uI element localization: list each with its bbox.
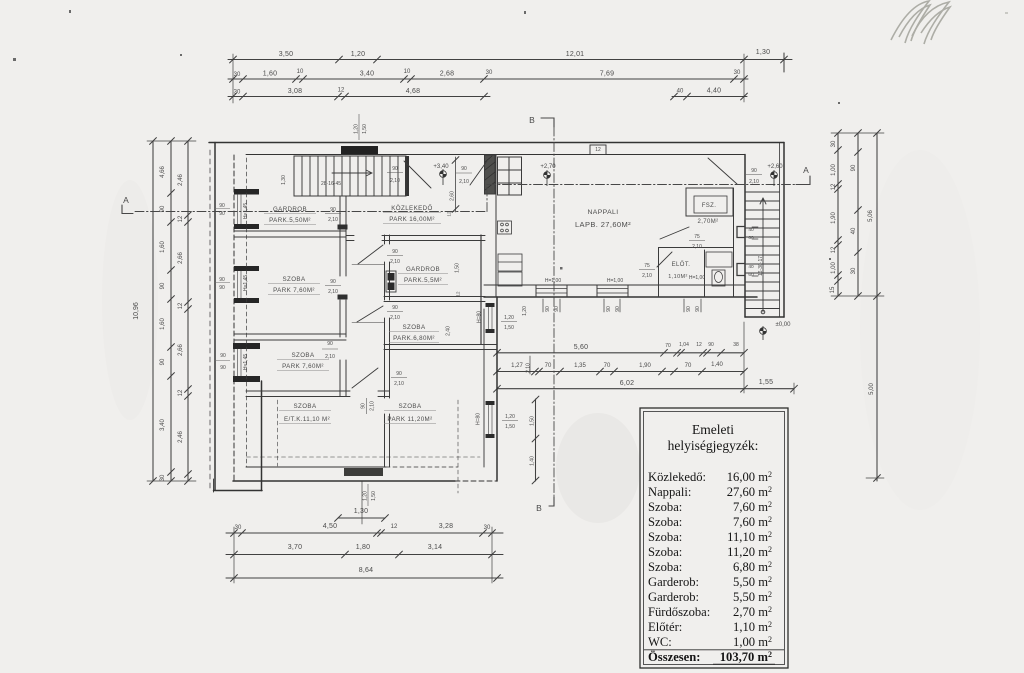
svg-text:GARDROB: GARDROB bbox=[406, 266, 440, 273]
section mark B bottom bbox=[549, 497, 554, 506]
svg-text:WC:: WC: bbox=[648, 635, 672, 649]
top dimension chain row 1 (3,50 / 1,20 / 12,01) bbox=[228, 59, 744, 61]
svg-text:3,40: 3,40 bbox=[360, 71, 374, 78]
svg-text:1,50: 1,50 bbox=[505, 424, 515, 430]
top dimension chain row 1b (1,30) bbox=[744, 59, 792, 61]
svg-text:2,10: 2,10 bbox=[749, 179, 759, 185]
svg-text:10: 10 bbox=[404, 69, 411, 75]
svg-text:3,70: 3,70 bbox=[288, 544, 302, 551]
interior wall W5 (center-east, gardrob2/szoba row) bbox=[384, 235, 386, 467]
svg-text:Szoba:: Szoba: bbox=[648, 500, 682, 514]
svg-text:90: 90 bbox=[851, 164, 857, 171]
svg-text:+2,60: +2,60 bbox=[767, 164, 783, 170]
vertical dim line in kozlekedo (2,60) bbox=[455, 157, 457, 212]
terrace-door hatched bar on bottom wall bbox=[344, 468, 383, 476]
svg-text:90: 90 bbox=[708, 342, 714, 348]
svg-text:11,20 m2: 11,20 m2 bbox=[727, 545, 772, 559]
svg-text:2,10: 2,10 bbox=[325, 354, 335, 360]
svg-text:1,55: 1,55 bbox=[759, 379, 773, 386]
external stair right edge bbox=[779, 143, 781, 318]
svg-text:90: 90 bbox=[615, 306, 621, 312]
svg-text:90: 90 bbox=[751, 168, 757, 174]
top dimension chain row 3 (30/3,08/12/4,68) bbox=[228, 96, 490, 98]
east wall of lower-left wing bbox=[496, 297, 498, 481]
svg-text:90: 90 bbox=[160, 358, 166, 365]
svg-text:5,50 m2: 5,50 m2 bbox=[733, 575, 772, 589]
svg-text:1,30: 1,30 bbox=[281, 175, 287, 185]
svg-text:H=80: H=80 bbox=[476, 413, 482, 425]
svg-text:+3,40: +3,40 bbox=[433, 164, 449, 170]
svg-text:1,20: 1,20 bbox=[363, 491, 369, 501]
svg-text:40: 40 bbox=[851, 227, 857, 234]
middle dim row B (1,27/70/1,35/70/1,90/70/1,40) bbox=[497, 371, 744, 373]
svg-text:2,10: 2,10 bbox=[526, 363, 532, 373]
left vertical dimension chain A (overall 10,96) bbox=[152, 141, 154, 481]
svg-text:1,50: 1,50 bbox=[530, 416, 536, 426]
kitchen small boxes bbox=[498, 221, 512, 234]
outer wall bottom-left wing bbox=[233, 480, 455, 482]
svg-text:5,50 m2: 5,50 m2 bbox=[733, 590, 772, 604]
svg-text:2,66: 2,66 bbox=[178, 252, 184, 264]
svg-text:1,80: 1,80 bbox=[356, 544, 370, 551]
gardrob2 east wall bbox=[480, 235, 482, 344]
svg-text:30: 30 bbox=[234, 72, 241, 78]
svg-text:90: 90 bbox=[686, 306, 692, 312]
window fraction labels 1,20/1,50 bbox=[504, 315, 515, 430]
svg-text:30: 30 bbox=[160, 474, 166, 481]
kitchen lower cabinets bbox=[498, 254, 522, 271]
middle dim row D (1,55) bbox=[744, 388, 794, 390]
door jamb dark marks on corridor wall bbox=[338, 225, 348, 230]
window glass lines on left wall bbox=[238, 194, 242, 376]
svg-text:2,10: 2,10 bbox=[328, 217, 338, 223]
bottom dimension chain row 2 (3,70/1,80/3,14) bbox=[226, 554, 503, 556]
svg-text:40: 40 bbox=[677, 89, 684, 95]
svg-text:30: 30 bbox=[851, 267, 857, 274]
svg-text:5,00: 5,00 bbox=[869, 383, 875, 395]
svg-text:2,46: 2,46 bbox=[178, 174, 184, 186]
svg-text:Fürdőszoba:: Fürdőszoba: bbox=[648, 605, 710, 619]
svg-text:70: 70 bbox=[685, 363, 692, 369]
svg-text:70: 70 bbox=[604, 363, 611, 369]
middle dim guides bbox=[496, 300, 498, 393]
svg-text:E/T.K.11,10 M²: E/T.K.11,10 M² bbox=[284, 416, 330, 423]
svg-text:90: 90 bbox=[330, 279, 336, 285]
svg-text:GARDROB: GARDROB bbox=[273, 206, 307, 213]
svg-text:1,10M²: 1,10M² bbox=[668, 274, 688, 280]
section line B-B (dash-dot vertical) bbox=[553, 127, 555, 505]
top chain vertical guides bbox=[232, 54, 234, 103]
svg-text:1,50: 1,50 bbox=[504, 325, 514, 331]
svg-text:75: 75 bbox=[694, 234, 700, 240]
svg-text:4,68: 4,68 bbox=[406, 88, 420, 95]
svg-text:30: 30 bbox=[734, 70, 741, 76]
svg-text:2,70M²: 2,70M² bbox=[697, 219, 718, 225]
left vertical dimension chain B bbox=[170, 141, 172, 481]
svg-text:12: 12 bbox=[178, 389, 184, 396]
svg-text:LAPB. 27,60M²: LAPB. 27,60M² bbox=[575, 220, 631, 229]
vertical dim line right of lower-left block (1,50/1,40) bbox=[535, 399, 537, 481]
svg-text:1,04: 1,04 bbox=[679, 342, 689, 348]
svg-text:90: 90 bbox=[327, 341, 333, 347]
svg-text:2,46: 2,46 bbox=[178, 431, 184, 443]
scan artifacts: top-right flourish bbox=[891, 1, 950, 44]
svg-text:Nappali:: Nappali: bbox=[648, 485, 691, 499]
interior wall H2 (below gardrob1) bbox=[234, 230, 346, 232]
svg-text:Szoba:: Szoba: bbox=[648, 560, 682, 574]
svg-text:5,60: 5,60 bbox=[574, 344, 588, 351]
svg-text:SZOBA: SZOBA bbox=[399, 403, 422, 410]
svg-text:2,10: 2,10 bbox=[459, 179, 469, 185]
svg-text:Szoba:: Szoba: bbox=[648, 545, 682, 559]
svg-text:1,50: 1,50 bbox=[455, 263, 461, 273]
svg-text:3,28: 3,28 bbox=[439, 523, 453, 530]
svg-text:30: 30 bbox=[486, 70, 493, 76]
external stair arrow up bbox=[762, 198, 764, 312]
svg-text:12,01: 12,01 bbox=[566, 51, 585, 58]
svg-text:ELŐT.: ELŐT. bbox=[672, 261, 691, 268]
svg-text:helyiségjegyzék:: helyiségjegyzék: bbox=[668, 438, 759, 453]
svg-text:12: 12 bbox=[456, 291, 461, 297]
svg-text:+2,70: +2,70 bbox=[540, 164, 556, 170]
svg-text:2,60: 2,60 bbox=[450, 191, 456, 201]
left chains horizontal guides bbox=[147, 140, 196, 142]
right chains horizontal guides bbox=[831, 132, 884, 134]
svg-text:90: 90 bbox=[219, 285, 225, 291]
svg-text:A: A bbox=[803, 165, 809, 175]
svg-text:103,70 m2: 103,70 m2 bbox=[720, 650, 772, 664]
svg-text:16,00 m2: 16,00 m2 bbox=[727, 470, 772, 484]
svg-text:60: 60 bbox=[748, 235, 754, 241]
svg-text:2,10: 2,10 bbox=[394, 381, 404, 387]
svg-text:1,20: 1,20 bbox=[522, 306, 528, 316]
scan artifacts: faint washes bbox=[102, 150, 980, 523]
interior wall H6 (gardrob2 top) bbox=[346, 235, 485, 237]
svg-text:1,30: 1,30 bbox=[354, 508, 368, 515]
middle dim row C (6,02) bbox=[497, 388, 744, 390]
svg-text:1,60: 1,60 bbox=[160, 241, 166, 253]
svg-text:4,50: 4,50 bbox=[323, 523, 337, 530]
svg-text:KÖZLEKEDŐ: KÖZLEKEDŐ bbox=[391, 205, 432, 212]
svg-text:7,69: 7,69 bbox=[600, 71, 614, 78]
svg-text:90: 90 bbox=[396, 371, 402, 377]
svg-text:SZOBA: SZOBA bbox=[294, 403, 317, 410]
svg-text:B: B bbox=[536, 503, 542, 513]
entrance black bar on top wall bbox=[341, 146, 378, 154]
svg-text:1,20: 1,20 bbox=[505, 414, 515, 420]
svg-text:10,96: 10,96 bbox=[133, 302, 140, 320]
shaft box in gardrob2 bbox=[386, 271, 396, 292]
svg-text:PARK 11,20M²: PARK 11,20M² bbox=[387, 416, 432, 423]
svg-text:2,10: 2,10 bbox=[390, 178, 400, 184]
external stair bottom edge bbox=[745, 316, 784, 318]
svg-text:90: 90 bbox=[219, 277, 225, 283]
section mark A left bbox=[122, 205, 133, 214]
svg-text:FSZ.: FSZ. bbox=[702, 203, 717, 209]
svg-text:1,90: 1,90 bbox=[831, 212, 837, 224]
left chain rotated labels bbox=[133, 166, 184, 482]
svg-text:1,35: 1,35 bbox=[574, 363, 586, 369]
interior wall H9 (szoba 6,80 bottom) bbox=[384, 344, 497, 346]
svg-text:2,70 m2: 2,70 m2 bbox=[733, 605, 772, 619]
section mark A right bbox=[796, 176, 810, 185]
svg-text:12: 12 bbox=[595, 147, 601, 153]
svg-text:12: 12 bbox=[178, 302, 184, 309]
svg-text:40: 40 bbox=[748, 227, 754, 233]
small guide for rotated 2,10 in row B bbox=[529, 356, 531, 374]
svg-text:2,68: 2,68 bbox=[440, 71, 454, 78]
svg-text:12: 12 bbox=[391, 524, 398, 530]
table separator lines bbox=[644, 649, 784, 651]
svg-text:Szoba:: Szoba: bbox=[648, 515, 682, 529]
svg-text:±0,00: ±0,00 bbox=[776, 322, 792, 328]
svg-text:2,10: 2,10 bbox=[390, 315, 400, 321]
svg-text:12: 12 bbox=[831, 246, 837, 253]
svg-text:90: 90 bbox=[695, 306, 701, 312]
interior stair block bbox=[294, 156, 406, 196]
svg-text:90: 90 bbox=[160, 282, 166, 289]
svg-text:90: 90 bbox=[219, 211, 225, 217]
bottom dimension chain row 3 (8,64) bbox=[226, 577, 503, 579]
svg-text:Szoba:: Szoba: bbox=[648, 530, 682, 544]
svg-text:1,00: 1,00 bbox=[831, 262, 837, 274]
svg-text:Előtér:: Előtér: bbox=[648, 620, 682, 634]
svg-text:75: 75 bbox=[644, 263, 650, 269]
svg-text:H=1,00: H=1,00 bbox=[545, 278, 561, 284]
svg-text:90: 90 bbox=[330, 207, 336, 213]
outer wall left (attic knee wall) bbox=[214, 143, 216, 491]
svg-text:2,10: 2,10 bbox=[390, 259, 400, 265]
section mark B top bbox=[541, 118, 554, 127]
niche symbol E upper bbox=[737, 227, 745, 238]
svg-text:12: 12 bbox=[178, 215, 184, 222]
scan artifacts: specks bbox=[13, 10, 1008, 270]
svg-text:8,64: 8,64 bbox=[359, 567, 373, 574]
svg-text:30: 30 bbox=[831, 140, 837, 147]
door fraction labels 90/2,10 bbox=[325, 166, 759, 387]
svg-text:30: 30 bbox=[484, 525, 491, 531]
svg-text:3,50: 3,50 bbox=[279, 51, 293, 58]
external stair treads bbox=[745, 192, 780, 309]
svg-text:60: 60 bbox=[748, 272, 754, 278]
right vertical dimension chain D bbox=[837, 133, 839, 296]
right chain rotated labels bbox=[830, 140, 875, 395]
svg-text:1,40: 1,40 bbox=[530, 456, 536, 466]
svg-text:H=1,45: H=1,45 bbox=[243, 203, 249, 219]
svg-text:1,27: 1,27 bbox=[511, 363, 523, 369]
svg-text:1,30: 1,30 bbox=[756, 49, 770, 56]
svg-text:1,20: 1,20 bbox=[354, 124, 360, 134]
svg-text:1,40: 1,40 bbox=[711, 362, 723, 368]
svg-text:90: 90 bbox=[160, 205, 166, 212]
svg-text:PARK.5,50M²: PARK.5,50M² bbox=[269, 217, 311, 224]
window tick marks below nappali wall bbox=[543, 299, 701, 312]
svg-text:H=1,45: H=1,45 bbox=[243, 275, 249, 291]
svg-text:H=1,45: H=1,45 bbox=[243, 354, 249, 370]
svg-text:70: 70 bbox=[545, 363, 552, 369]
svg-text:B: B bbox=[529, 115, 535, 125]
svg-text:SZOBA: SZOBA bbox=[403, 324, 426, 331]
east wall window (h=80) upper bbox=[486, 303, 495, 307]
svg-text:1,90: 1,90 bbox=[639, 363, 651, 369]
svg-text:90: 90 bbox=[392, 249, 398, 255]
svg-text:SZOBA: SZOBA bbox=[283, 276, 306, 283]
svg-text:90: 90 bbox=[220, 353, 226, 359]
bathroom (FSZ 2,70) box bbox=[686, 188, 733, 216]
svg-text:6,02: 6,02 bbox=[620, 380, 634, 387]
interior wall H7 (gardrob2 bottom) bbox=[384, 296, 485, 298]
svg-text:H=1,00: H=1,00 bbox=[689, 275, 705, 281]
svg-text:1,50: 1,50 bbox=[362, 124, 368, 134]
svg-text:7,60 m2: 7,60 m2 bbox=[733, 515, 772, 529]
svg-text:12: 12 bbox=[696, 342, 702, 348]
chimney notch on top wall bbox=[590, 145, 606, 155]
svg-text:1,10 m2: 1,10 m2 bbox=[733, 620, 772, 634]
svg-text:SZOBA: SZOBA bbox=[292, 352, 315, 359]
nappali west wall + kitchen column bbox=[495, 155, 497, 298]
svg-text:PARK 7,60M²: PARK 7,60M² bbox=[273, 287, 315, 294]
section line A-A (dash-dot, jogged) bbox=[135, 211, 487, 213]
svg-text:27,60 m2: 27,60 m2 bbox=[727, 485, 772, 499]
outer wall top bbox=[209, 142, 784, 144]
svg-text:12: 12 bbox=[338, 88, 345, 94]
level mark circles bbox=[440, 169, 778, 340]
svg-text:1,60: 1,60 bbox=[160, 318, 166, 330]
niche size labels 40/60 bbox=[748, 227, 754, 278]
svg-text:16·30·17: 16·30·17 bbox=[758, 256, 764, 276]
svg-text:Garderob:: Garderob: bbox=[648, 575, 699, 589]
top dimension chain row 2 (30/1,60/10/3,40/10/2,68/30/7,69/30) bbox=[228, 78, 748, 80]
door swing slashes bbox=[708, 158, 737, 184]
window bars on left outer wall bbox=[234, 189, 259, 195]
interior stair direction arrow bbox=[332, 172, 372, 174]
interior wall H4 (below szoba2) bbox=[246, 390, 389, 392]
svg-text:15: 15 bbox=[830, 286, 836, 293]
room list table frame bbox=[640, 408, 788, 668]
svg-text:90: 90 bbox=[461, 166, 467, 172]
dashed furniture line along left wall bbox=[246, 158, 248, 467]
svg-text:2,10: 2,10 bbox=[642, 273, 652, 279]
svg-text:1,00 m2: 1,00 m2 bbox=[733, 635, 772, 649]
svg-text:Közlekedő:: Közlekedő: bbox=[648, 470, 706, 484]
svg-text:1,20: 1,20 bbox=[504, 315, 514, 321]
niche symbol E lower bbox=[737, 264, 745, 276]
svg-text:90: 90 bbox=[220, 365, 226, 371]
top dimension chain row 4 (40/4,40) bbox=[672, 96, 747, 98]
svg-text:11,10 m2: 11,10 m2 bbox=[727, 530, 772, 544]
svg-text:H=1,00: H=1,00 bbox=[607, 278, 623, 284]
east wall window (h=80) lower bbox=[486, 401, 495, 405]
right vertical dimension chain E bbox=[857, 133, 859, 296]
svg-text:12: 12 bbox=[831, 183, 837, 190]
svg-text:90: 90 bbox=[361, 403, 367, 409]
svg-text:H=80: H=80 bbox=[477, 311, 483, 323]
svg-text:2,10: 2,10 bbox=[692, 244, 702, 250]
interior wall W1 (corridor west) bbox=[339, 196, 341, 396]
svg-text:70: 70 bbox=[665, 343, 671, 349]
rotated small labels in plan bbox=[243, 124, 764, 501]
svg-text:Garderob:: Garderob: bbox=[648, 590, 699, 604]
nappali south wall bbox=[484, 284, 745, 286]
WC fixtures bbox=[706, 252, 732, 267]
svg-text:38: 38 bbox=[733, 342, 739, 348]
svg-text:30: 30 bbox=[234, 90, 241, 96]
middle dim row A (5,60 + 70/1,04/12/90/38) bbox=[497, 352, 744, 354]
svg-text:3,40: 3,40 bbox=[160, 419, 166, 431]
svg-text:6,80 m2: 6,80 m2 bbox=[733, 560, 772, 574]
svg-text:3,14: 3,14 bbox=[428, 544, 442, 551]
svg-text:1,60: 1,60 bbox=[263, 71, 277, 78]
svg-text:10: 10 bbox=[297, 69, 304, 75]
svg-text:90: 90 bbox=[545, 306, 551, 312]
windows in nappali south wall bbox=[536, 289, 628, 294]
stair right side dark bar bbox=[405, 156, 409, 196]
svg-text:Összesen:: Összesen: bbox=[648, 650, 700, 664]
svg-text:7,60 m2: 7,60 m2 bbox=[733, 500, 772, 514]
svg-text:PARK 7,60M²: PARK 7,60M² bbox=[282, 363, 324, 370]
svg-text:2,10: 2,10 bbox=[370, 401, 376, 411]
kitchen counter top bbox=[498, 157, 522, 195]
svg-text:4,40: 4,40 bbox=[707, 88, 721, 95]
svg-text:4,66: 4,66 bbox=[160, 166, 166, 178]
svg-text:28·16·45: 28·16·45 bbox=[321, 181, 341, 187]
svg-text:30: 30 bbox=[235, 525, 242, 531]
svg-text:40: 40 bbox=[748, 264, 754, 270]
svg-text:1,50: 1,50 bbox=[371, 491, 377, 501]
svg-text:12: 12 bbox=[447, 211, 452, 217]
interior wall H3 (below szoba1) bbox=[234, 333, 346, 335]
svg-text:PARK 16,00M²: PARK 16,00M² bbox=[389, 216, 435, 223]
svg-text:2,10: 2,10 bbox=[328, 289, 338, 295]
svg-text:90: 90 bbox=[606, 306, 612, 312]
svg-text:PARK.5,5M²: PARK.5,5M² bbox=[404, 277, 442, 284]
bath/WC block walls bbox=[733, 188, 735, 297]
svg-text:3,08: 3,08 bbox=[288, 88, 302, 95]
svg-text:1,00: 1,00 bbox=[831, 164, 837, 176]
south-west corner jog bbox=[261, 381, 263, 491]
svg-text:5,06: 5,06 bbox=[868, 210, 874, 222]
left vertical dimension chain C bbox=[187, 141, 189, 481]
svg-text:NAPPALI: NAPPALI bbox=[587, 209, 618, 216]
svg-text:2,40: 2,40 bbox=[446, 326, 452, 336]
svg-text:2,66: 2,66 bbox=[178, 344, 184, 356]
door threshold lines bbox=[352, 265, 384, 323]
right vertical dimension chain F (5,06 / 5,00) bbox=[876, 133, 878, 481]
bottom dimension chain row 1 (30/4,50/12/3,28/30) bbox=[226, 532, 503, 534]
dark wall stub left of kitchen bbox=[485, 155, 496, 194]
svg-text:A: A bbox=[123, 195, 129, 205]
svg-text:1,20: 1,20 bbox=[351, 51, 365, 58]
svg-text:90: 90 bbox=[392, 166, 398, 172]
svg-text:PARK.6,80M²: PARK.6,80M² bbox=[393, 335, 435, 342]
svg-text:90: 90 bbox=[554, 306, 560, 312]
svg-text:Emeleti: Emeleti bbox=[692, 422, 734, 437]
bottom small dim 1,30 below plan bbox=[338, 517, 385, 519]
svg-text:90: 90 bbox=[219, 203, 225, 209]
dashed lines lower-left rooms bbox=[247, 456, 481, 458]
svg-text:90: 90 bbox=[392, 305, 398, 311]
house east wall / stair separation bbox=[744, 155, 746, 318]
bottom chains vertical guides bbox=[233, 527, 235, 583]
room list table text bbox=[644, 422, 784, 664]
